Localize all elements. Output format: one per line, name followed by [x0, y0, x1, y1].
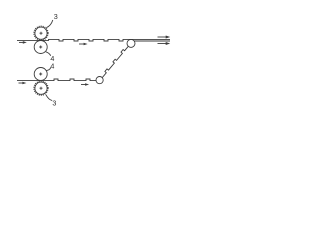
arrow laminated output lower	[158, 42, 171, 45]
arrow feed upper strip	[19, 41, 27, 44]
svg-text:3: 3	[52, 98, 56, 107]
wire lower embossed strip (entry line + profile with bumps)	[17, 79, 96, 81]
label 3 leader (bottom)	[46, 95, 52, 101]
arrow feed lower strip	[19, 82, 27, 85]
roller 4 (upper smooth backing roller) body	[34, 41, 47, 54]
roller 3 teeth	[34, 26, 48, 40]
label 4 leader (lower pair)	[46, 68, 51, 71]
svg-text:3: 3	[54, 12, 58, 21]
wire lower lamination line exiting junction roller	[134, 40, 170, 42]
arrow upper strip travel	[79, 43, 88, 46]
roller 3 (lower toothed forming roller) body	[35, 82, 47, 94]
roller 3 center cross	[40, 32, 43, 35]
arrow laminated output upper	[158, 36, 171, 39]
label 4 leader (upper pair)	[46, 52, 51, 56]
guide roller (lower, turns strip up the incline)	[96, 77, 103, 84]
lower toothed roller teeth	[34, 81, 48, 95]
arrow lower strip travel	[81, 83, 89, 86]
wire upper embossed strip (entry line + profile with dips, continues over roller 5 as upper lamination line)	[17, 39, 170, 41]
roller 4 (lower smooth backing roller) body	[34, 68, 47, 81]
roller 4 center cross	[39, 46, 42, 49]
junction roller (upper, laminates strips)	[127, 39, 135, 47]
roller 3 (upper toothed forming roller) body	[35, 27, 47, 39]
lower smooth roller center cross	[39, 73, 42, 76]
label 3 leader (top)	[46, 20, 53, 28]
wire inclined strip with bump jogs	[102, 46, 128, 77]
svg-text:4: 4	[50, 62, 54, 71]
lower toothed roller center cross	[40, 87, 43, 90]
